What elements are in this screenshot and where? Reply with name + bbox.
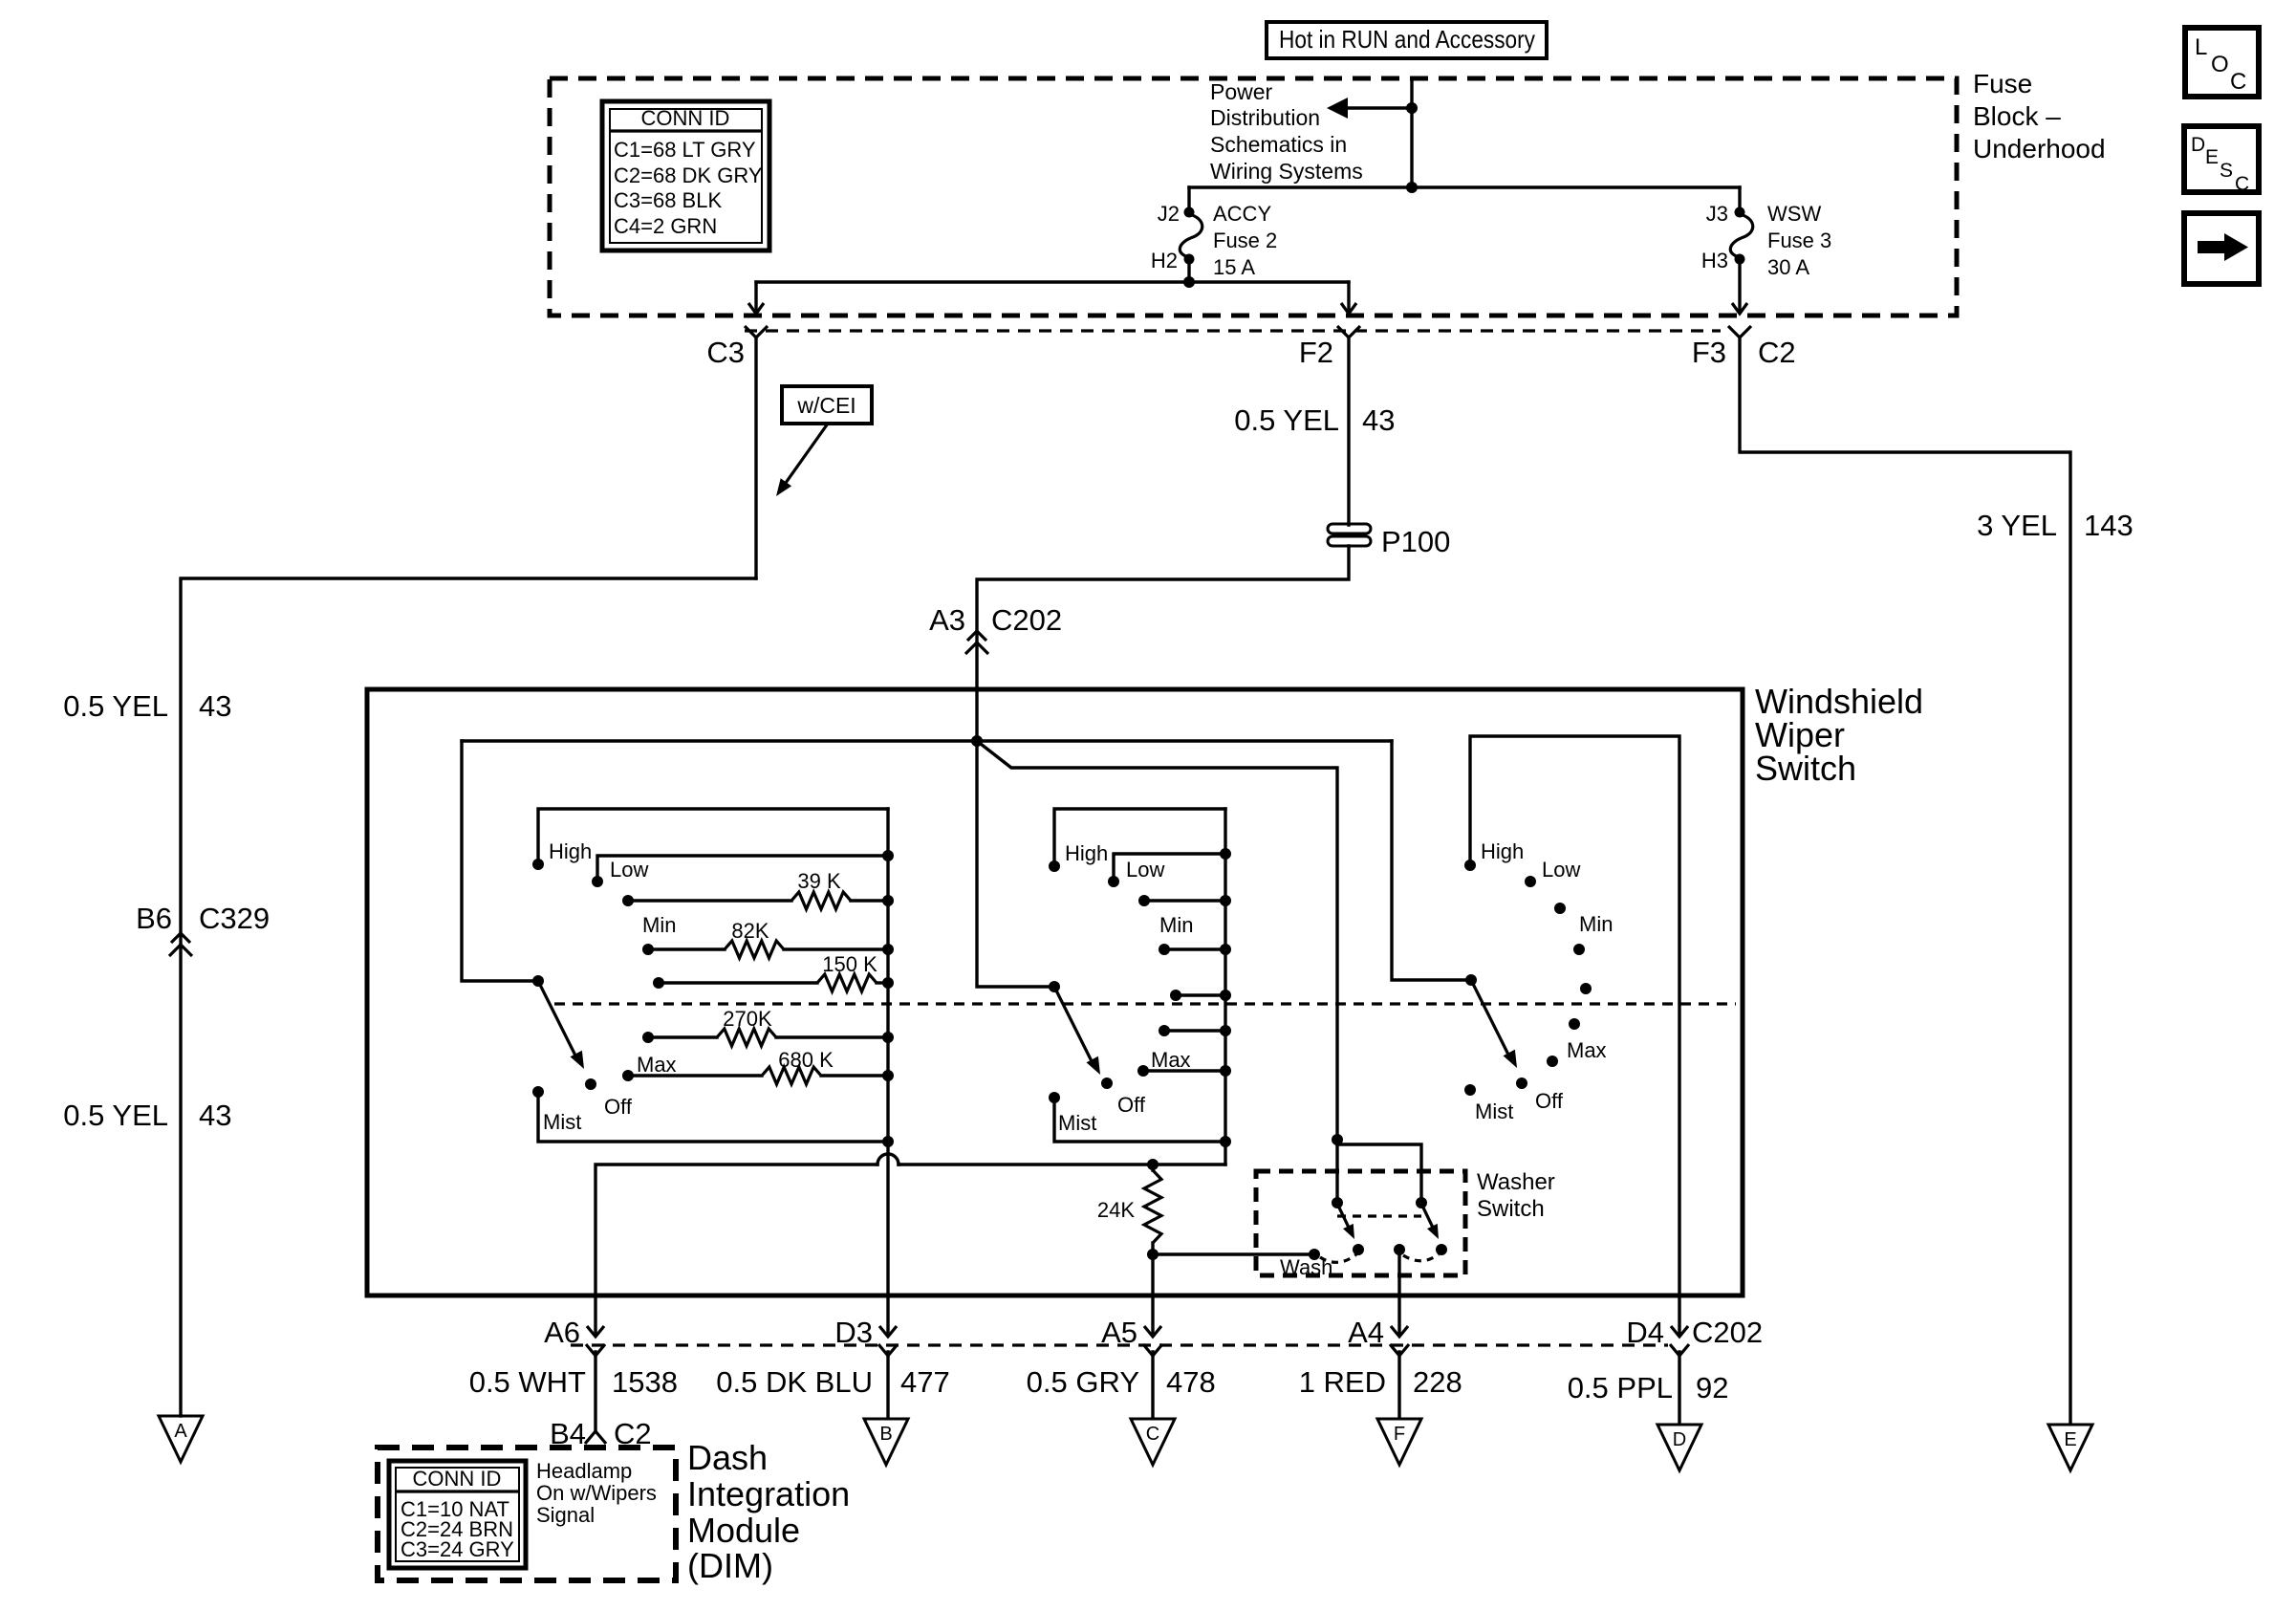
wire: supply bus across switch — [462, 739, 1392, 742]
S1 Off contact — [585, 1078, 633, 1119]
S1 resistor 270K row — [642, 1007, 894, 1046]
svg-text:H2: H2 — [1151, 249, 1178, 272]
svg-text:Washer: Washer — [1477, 1169, 1555, 1195]
S1 wiper arrow — [540, 985, 584, 1069]
svg-text:Max: Max — [637, 1053, 677, 1077]
svg-text:Off: Off — [1117, 1093, 1146, 1117]
svg-text:O: O — [2211, 52, 2229, 77]
S3 wiper arrow — [1473, 984, 1517, 1068]
connector A3 / C202 — [929, 603, 1062, 654]
S3 High contact + feed to D4 — [1464, 736, 1679, 1295]
svg-text:Headlamp: Headlamp — [536, 1459, 632, 1483]
washer switch dashed box — [1256, 1171, 1465, 1275]
svg-text:Schematics in: Schematics in — [1210, 132, 1347, 157]
S3 Low contact — [1525, 858, 1580, 887]
svg-text:92: 92 — [1696, 1371, 1728, 1404]
node 24K top — [1147, 1159, 1159, 1170]
svg-text:A: A — [174, 1421, 187, 1442]
svg-text:0.5 WHT: 0.5 WHT — [469, 1365, 586, 1399]
svg-text:0.5 YEL: 0.5 YEL — [63, 689, 168, 723]
svg-text:B: B — [879, 1424, 892, 1445]
svg-text:39 K: 39 K — [797, 869, 841, 893]
node 24K bottom — [1147, 1249, 1159, 1260]
svg-text:E: E — [2064, 1429, 2076, 1450]
wire D3 drop — [886, 1142, 889, 1295]
svg-text:C: C — [2230, 69, 2246, 95]
washer A4 contact + dashed throw arc — [1394, 1244, 1447, 1261]
svg-text:Integration: Integration — [687, 1474, 850, 1513]
svg-text:Off: Off — [604, 1095, 633, 1119]
wire to fuse 2 J2 — [1187, 187, 1190, 212]
wire A5 drop — [1151, 1254, 1154, 1295]
svg-text:Mist: Mist — [543, 1110, 581, 1134]
svg-text:C202: C202 — [1692, 1316, 1763, 1349]
svg-text:On w/Wipers: On w/Wipers — [536, 1481, 657, 1505]
wire C3 horizontal to left riser — [181, 578, 756, 1416]
node washer feed — [1332, 1134, 1343, 1145]
off-page triangle E — [2048, 1425, 2092, 1470]
connector D4 / C202 — [1626, 1295, 1689, 1356]
label 0.5 YEL 43 (F2) — [1234, 403, 1395, 437]
svg-text:High: High — [549, 839, 592, 863]
svg-text:Fuse 3: Fuse 3 — [1767, 229, 1831, 252]
label 1 RED 228 — [1299, 1365, 1462, 1399]
svg-text:228: 228 — [1413, 1365, 1462, 1399]
label 0.5 WHT 1538 — [469, 1365, 678, 1399]
svg-text:P100: P100 — [1381, 525, 1450, 558]
connector A6 — [544, 1295, 605, 1356]
washer right moving contact — [1416, 1197, 1439, 1239]
svg-text:Fuse: Fuse — [1973, 69, 2032, 98]
wire: left drop to pole 1 — [462, 741, 538, 981]
svg-text:Wiring Systems: Wiring Systems — [1210, 159, 1363, 184]
wire + arrow down to F2 — [1341, 282, 1356, 314]
washer left moving contact — [1332, 1197, 1354, 1239]
svg-text:0.5 GRY: 0.5 GRY — [1027, 1365, 1139, 1399]
node S2 output — [1220, 1136, 1231, 1147]
svg-text:680 K: 680 K — [778, 1048, 834, 1072]
svg-text:F: F — [1394, 1424, 1405, 1445]
svg-text:Hot in RUN and Accessory: Hot in RUN and Accessory — [1279, 25, 1535, 54]
label 0.5 PPL 92 — [1568, 1371, 1729, 1404]
svg-text:Low: Low — [1126, 858, 1164, 882]
pin H2 — [1151, 249, 1195, 272]
S2 Min contact — [1138, 895, 1231, 937]
wire A6 to DIM — [594, 1352, 596, 1431]
S3 intermediate contact 3 — [1569, 1018, 1580, 1030]
svg-text:Low: Low — [610, 858, 648, 882]
S1 High contact — [532, 809, 888, 870]
label "Fuse Block - Underhood" — [1973, 69, 2106, 163]
svg-text:C1=68 LT GRY: C1=68 LT GRY — [614, 138, 756, 162]
svg-text:A5: A5 — [1101, 1316, 1137, 1349]
fuse 3 element (WSW Fuse 3 30 A) — [1730, 202, 1831, 279]
icon LOC — [2185, 28, 2259, 97]
node S1 output — [882, 1136, 894, 1147]
node: fuse feed junction — [1406, 182, 1418, 193]
wire F2 down — [1347, 337, 1350, 525]
svg-text:L: L — [2195, 34, 2207, 60]
svg-text:C3=24 GRY: C3=24 GRY — [401, 1537, 514, 1561]
svg-text:Dash: Dash — [687, 1438, 768, 1477]
wire below fuse 2 — [1187, 259, 1190, 282]
label 3 YEL 143 — [1977, 509, 2134, 542]
svg-text:F3: F3 — [1692, 336, 1726, 369]
fuse 2 element (ACCY Fuse 2 15 A) — [1180, 202, 1277, 279]
connector C3 — [706, 326, 768, 369]
wire A6 branch with hop over D3 — [596, 1154, 1225, 1295]
wire + arrow down to C3 — [748, 282, 764, 314]
svg-text:C: C — [1146, 1424, 1159, 1445]
svg-text:Mist: Mist — [1058, 1111, 1096, 1135]
wire washer feed to left contact — [1335, 1140, 1338, 1203]
pin J2 — [1158, 202, 1195, 226]
S1 Max contact + resistor 680 K — [622, 1048, 894, 1084]
S2 intermediate contact 3 — [1159, 1025, 1231, 1036]
svg-text:C2=68 DK GRY: C2=68 DK GRY — [614, 163, 763, 187]
svg-text:43: 43 — [199, 689, 231, 723]
wire A4 drop — [1397, 1250, 1400, 1295]
wire D4 to triangle — [1678, 1352, 1680, 1423]
svg-text:43: 43 — [199, 1099, 231, 1132]
Wash stationary contact — [1280, 1249, 1332, 1279]
svg-text:C3=68 BLK: C3=68 BLK — [614, 188, 722, 212]
Dash Integration Module dashed box — [378, 1448, 676, 1580]
S2 Max contact — [1137, 1048, 1231, 1077]
svg-text:CONN ID: CONN ID — [413, 1467, 502, 1491]
svg-text:High: High — [1481, 839, 1524, 863]
S2 Low contact — [1108, 848, 1231, 887]
S1 Mist contact — [532, 1086, 888, 1142]
svg-text:J3: J3 — [1706, 202, 1728, 226]
wire A3 into switch — [975, 633, 978, 741]
S2 intermediate contact 2 — [1170, 990, 1231, 1001]
svg-text:24K: 24K — [1097, 1198, 1135, 1222]
svg-text:Low: Low — [1542, 858, 1580, 882]
svg-text:478: 478 — [1166, 1365, 1216, 1399]
S3 Mist contact — [1464, 1084, 1513, 1123]
washer left target contact + dashed throw arc — [1320, 1244, 1364, 1262]
svg-text:High: High — [1065, 841, 1108, 865]
svg-text:1538: 1538 — [612, 1365, 678, 1399]
svg-text:Block –: Block – — [1973, 101, 2061, 131]
wire below P100 to A3 — [977, 546, 1349, 629]
svg-text:Off: Off — [1535, 1089, 1564, 1113]
svg-text:A4: A4 — [1348, 1316, 1384, 1349]
wire F3 to 3 YEL riser — [1740, 337, 2070, 1423]
svg-text:270K: 270K — [723, 1007, 772, 1031]
label "Dash Integration Module (DIM)" — [687, 1438, 850, 1585]
connector A5 — [1101, 1295, 1162, 1356]
svg-text:Fuse 2: Fuse 2 — [1213, 229, 1277, 252]
svg-text:D: D — [2191, 134, 2205, 156]
svg-text:143: 143 — [2084, 509, 2134, 542]
svg-text:H3: H3 — [1701, 249, 1728, 272]
wire: fuse feed bus — [1189, 185, 1740, 188]
CONN ID table (fuse block) — [602, 101, 769, 250]
svg-text:C3: C3 — [706, 336, 745, 369]
connector F2 — [1299, 326, 1360, 369]
svg-text:D4: D4 — [1626, 1316, 1664, 1349]
grommet P100 — [1328, 524, 1450, 558]
wire to fuse 3 J3 — [1738, 187, 1741, 212]
wire: right drop to pole 3 — [1392, 741, 1471, 980]
label box "Hot in RUN and Accessory" — [1267, 22, 1547, 58]
dashed gang line across switches — [554, 1002, 1736, 1005]
wire A5 to triangle — [1151, 1352, 1154, 1417]
wire: drop to pole 2 — [977, 741, 1054, 987]
svg-text:0.5 DK BLU: 0.5 DK BLU — [716, 1365, 873, 1399]
svg-text:D3: D3 — [834, 1316, 873, 1349]
arrow to Power Distribution Schematics — [1327, 98, 1412, 119]
svg-text:Power: Power — [1210, 79, 1273, 104]
svg-text:82K: 82K — [731, 919, 769, 943]
off-page triangle A — [159, 1416, 203, 1462]
svg-text:43: 43 — [1362, 403, 1395, 437]
label "Headlamp On w/Wipers Signal" — [536, 1459, 657, 1527]
off-page triangle F — [1377, 1419, 1421, 1465]
svg-text:C4=2 GRN: C4=2 GRN — [614, 214, 717, 238]
S1 Low contact — [592, 850, 894, 887]
connector B6 / C329 — [136, 902, 270, 956]
svg-text:ACCY: ACCY — [1213, 202, 1271, 226]
S3 pole — [1465, 974, 1477, 986]
svg-text:30 A: 30 A — [1767, 255, 1809, 279]
svg-text:Max: Max — [1151, 1048, 1191, 1072]
wire C3 down — [754, 337, 757, 578]
label "Windshield Wiper Switch" — [1755, 682, 1923, 788]
S2 High contact — [1049, 809, 1225, 872]
S2 Mist contact — [1049, 1092, 1225, 1142]
washer mechanical link dashed — [1337, 1214, 1421, 1217]
S2 wiper arrow — [1056, 991, 1100, 1075]
S3 intermediate contact 1 — [1573, 944, 1585, 955]
svg-text:Distribution: Distribution — [1210, 105, 1320, 130]
svg-text:A3: A3 — [929, 603, 965, 637]
label "Power Distribution Schematics in Wiring Systems" — [1210, 79, 1363, 184]
svg-text:S: S — [2220, 160, 2233, 182]
S2 intermediate contact 1 — [1159, 944, 1231, 955]
svg-text:Switch: Switch — [1755, 749, 1856, 788]
svg-text:C: C — [2235, 173, 2249, 195]
pin H3 — [1701, 249, 1745, 272]
S3 intermediate contact 2 — [1580, 983, 1592, 994]
svg-text:WSW: WSW — [1767, 202, 1821, 226]
label 0.5 DK BLU 477 — [716, 1365, 949, 1399]
connector A4 — [1348, 1295, 1409, 1356]
S2 contact bus — [1224, 809, 1226, 1142]
connector B4 / C2 (DIM) — [550, 1417, 652, 1450]
label box w/CEI with arrow — [776, 386, 872, 496]
S2 Off contact — [1101, 1078, 1146, 1117]
svg-text:B6: B6 — [136, 902, 172, 935]
wire: branch to washer feed — [977, 741, 1337, 1140]
svg-text:0.5 YEL: 0.5 YEL — [63, 1099, 168, 1132]
svg-text:1 RED: 1 RED — [1299, 1365, 1386, 1399]
pin J3 — [1706, 202, 1745, 226]
S3 Max contact — [1547, 1038, 1607, 1067]
svg-text:J2: J2 — [1158, 202, 1180, 226]
S3 Off contact — [1516, 1078, 1564, 1113]
svg-text:Underhood: Underhood — [1973, 134, 2106, 163]
svg-text:C2: C2 — [1758, 336, 1796, 369]
wire S2 output drop — [1224, 1142, 1226, 1165]
svg-text:Min: Min — [642, 913, 676, 937]
svg-text:F2: F2 — [1299, 336, 1333, 369]
wire from Hot in RUN into fuse block — [1410, 78, 1413, 187]
svg-text:Max: Max — [1567, 1038, 1607, 1062]
label 0.5 GRY 478 — [1027, 1365, 1216, 1399]
S1 resistor 82K row — [642, 919, 894, 958]
fuse block dashed outline — [550, 78, 1957, 316]
S1 resistor 150 K row — [653, 952, 894, 991]
svg-text:A6: A6 — [544, 1316, 580, 1349]
svg-text:Mist: Mist — [1475, 1099, 1513, 1123]
wire: fuse 2 output bus to C3 and F2 — [756, 280, 1349, 283]
svg-text:0.5 PPL: 0.5 PPL — [1568, 1371, 1673, 1404]
S1 contact bus — [886, 809, 889, 1142]
CONN ID table (DIM) — [389, 1461, 526, 1568]
wire washer feed to right contact — [1337, 1140, 1421, 1203]
wire + arrow down to F3 — [1732, 259, 1747, 314]
label 0.5 YEL 43 (upper left) — [63, 689, 231, 723]
svg-text:Signal: Signal — [536, 1503, 595, 1527]
node: power distribution tap — [1406, 102, 1418, 114]
connector line C202-like light dashed — [745, 329, 1721, 332]
node below fuse 2 — [1183, 276, 1195, 288]
svg-text:C329: C329 — [199, 902, 270, 935]
svg-text:477: 477 — [900, 1365, 950, 1399]
svg-text:Module: Module — [687, 1511, 800, 1550]
svg-text:0.5 YEL: 0.5 YEL — [1234, 403, 1339, 437]
icon arrow — [2184, 213, 2259, 284]
svg-text:w/CEI: w/CEI — [796, 393, 856, 418]
connector F3 / C2 — [1692, 326, 1796, 369]
S1 Min contact + resistor 39 K — [622, 869, 894, 937]
svg-text:E: E — [2205, 146, 2219, 168]
svg-text:CONN ID: CONN ID — [641, 106, 730, 130]
svg-text:3 YEL: 3 YEL — [1977, 509, 2057, 542]
svg-text:Switch: Switch — [1477, 1196, 1545, 1222]
node: supply junction inside switch — [971, 735, 983, 747]
Windshield Wiper Switch box — [367, 689, 1743, 1295]
svg-text:C202: C202 — [991, 603, 1062, 637]
svg-text:Min: Min — [1159, 913, 1193, 937]
S1 pole — [532, 975, 544, 987]
off-page triangle C — [1131, 1419, 1175, 1465]
label 0.5 YEL 43 (lower left) — [63, 1099, 231, 1132]
label "Washer Switch" — [1477, 1169, 1555, 1222]
wire D3 to triangle — [886, 1352, 889, 1417]
S2 pole — [1049, 981, 1060, 992]
wire 24K to Wash contact — [1153, 1252, 1314, 1255]
off-page triangle B — [864, 1419, 908, 1465]
S3 Min contact — [1554, 903, 1613, 936]
wire A4 to triangle — [1397, 1352, 1400, 1417]
svg-text:D: D — [1673, 1429, 1686, 1450]
resistor 24K — [1097, 1165, 1161, 1254]
off-page triangle D — [1657, 1425, 1701, 1470]
svg-text:(DIM): (DIM) — [687, 1546, 773, 1585]
svg-text:Min: Min — [1579, 912, 1613, 936]
connector dashed line C202 bottom — [571, 1343, 1668, 1346]
svg-text:15 A: 15 A — [1213, 255, 1255, 279]
svg-text:150 K: 150 K — [822, 952, 877, 976]
connector D3 — [834, 1295, 898, 1356]
icon DESC — [2184, 126, 2259, 195]
